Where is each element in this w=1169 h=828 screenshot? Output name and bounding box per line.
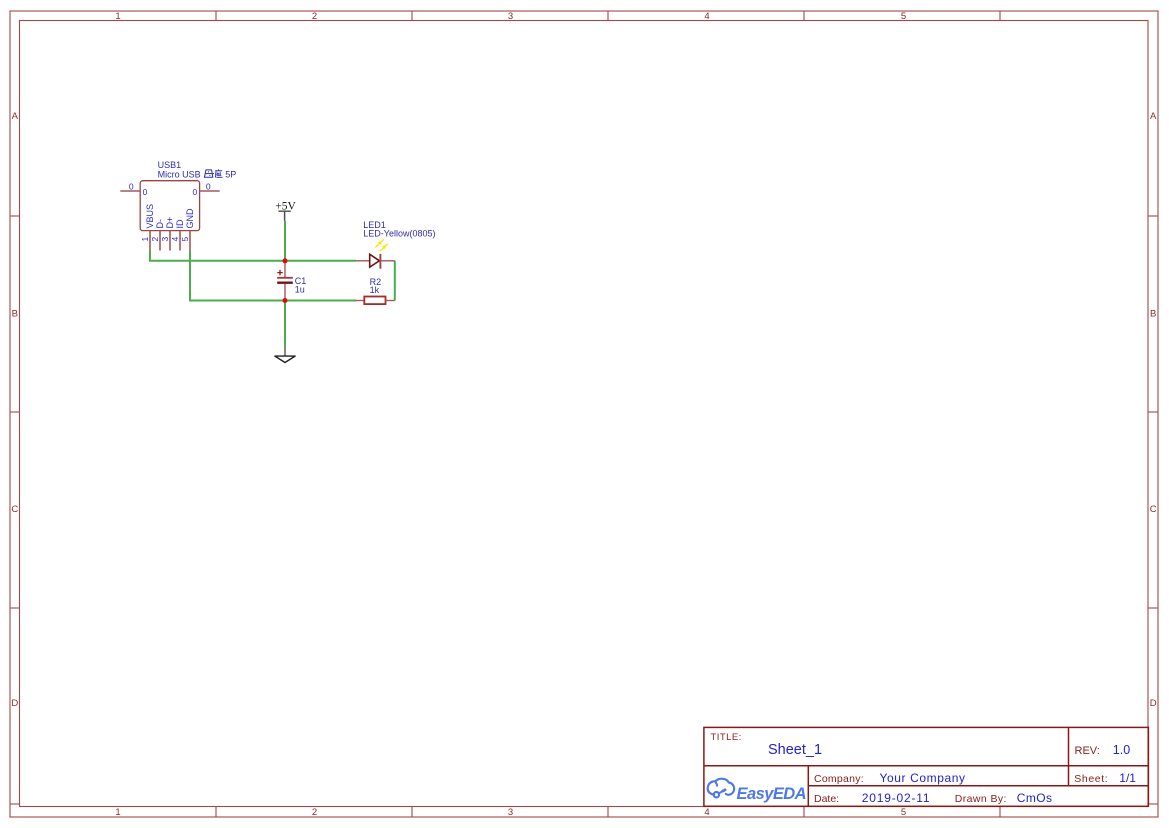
ground symbol: [275, 346, 295, 362]
svg-text:Sheet_1: Sheet_1: [768, 742, 822, 758]
svg-text:D: D: [1150, 698, 1157, 709]
svg-text:4: 4: [704, 11, 709, 22]
svg-text:B: B: [1150, 309, 1156, 320]
frame row ticks left: [10, 216, 20, 804]
power flag +5V: [275, 200, 296, 220]
svg-text:Company:: Company:: [814, 773, 864, 785]
connector USB1 body: [140, 181, 199, 231]
svg-text:1: 1: [140, 237, 150, 242]
svg-text:3: 3: [160, 237, 170, 242]
USB1 pin 4 lead: [179, 231, 181, 251]
svg-text:1: 1: [115, 807, 120, 818]
wire +5V symbol to top rail: [284, 221, 286, 261]
USB1 pin 2 lead: [159, 231, 161, 251]
svg-text:GND: GND: [185, 208, 195, 229]
resistor R2: [356, 297, 395, 305]
svg-text:3: 3: [508, 807, 513, 818]
svg-text:A: A: [1150, 111, 1157, 122]
svg-text:2: 2: [312, 807, 317, 818]
svg-text:2: 2: [312, 11, 317, 22]
svg-text:EasyEDA: EasyEDA: [737, 785, 807, 803]
svg-text:5P: 5P: [225, 169, 236, 179]
svg-text:Date:: Date:: [814, 793, 839, 805]
EasyEDA logo cloud icon: [708, 779, 734, 798]
svg-text:REV:: REV:: [1075, 745, 1100, 757]
svg-text:Sheet:: Sheet:: [1074, 773, 1108, 785]
USB1 pin 5 lead: [189, 231, 191, 251]
title block divider right of logo cell: [807, 766, 809, 807]
USB1 part name label "Micro USB 母座 5P": [158, 169, 237, 179]
frame column ticks top: [216, 11, 1000, 21]
svg-text:Drawn By:: Drawn By:: [955, 793, 1007, 805]
svg-text:1k: 1k: [370, 285, 380, 295]
svg-text:A: A: [12, 111, 19, 122]
frame row labels right: [1150, 111, 1157, 709]
node junction dot top rail: [283, 258, 288, 263]
LED1 light arrow 2: [380, 244, 388, 252]
title block divider right column: [1068, 727, 1070, 785]
USB1 pin 1 lead: [149, 231, 151, 251]
svg-text:LED-Yellow(0805): LED-Yellow(0805): [363, 229, 435, 239]
LED1 light arrow 1: [375, 239, 383, 247]
svg-text:1/1: 1/1: [1119, 771, 1136, 785]
USB1 pin 3 lead: [169, 231, 171, 251]
wire bottom rail to ground symbol: [284, 301, 286, 347]
svg-text:5: 5: [901, 11, 906, 22]
svg-text:ID: ID: [175, 219, 185, 229]
svg-text:0: 0: [143, 187, 148, 197]
svg-text:4: 4: [704, 807, 709, 818]
frame row ticks right: [1148, 216, 1158, 804]
title block divider under company/sheet row: [808, 785, 1148, 787]
frame column labels top: [115, 11, 906, 22]
svg-text:4: 4: [170, 237, 180, 242]
frame column ticks bottom: [216, 807, 1000, 818]
frame row labels left: [11, 111, 18, 709]
LED LED1: [356, 254, 395, 269]
capacitor C1: [277, 261, 293, 301]
svg-text:D: D: [11, 698, 18, 709]
svg-text:C: C: [11, 504, 18, 515]
svg-text:2: 2: [150, 237, 160, 242]
svg-text:0: 0: [206, 181, 211, 191]
node junction dot bottom rail: [283, 298, 288, 303]
svg-text:2019-02-11: 2019-02-11: [862, 791, 931, 805]
svg-text:5: 5: [901, 807, 906, 818]
svg-text:1u: 1u: [295, 284, 305, 294]
wire from USB1 pin 5 to GND net (bottom rail): [190, 251, 356, 301]
svg-text:0: 0: [192, 187, 197, 197]
frame column labels bottom: [115, 807, 906, 818]
svg-text:D+: D+: [165, 217, 175, 229]
svg-text:CmOs: CmOs: [1017, 791, 1053, 805]
svg-text:Your Company: Your Company: [880, 771, 966, 785]
svg-text:TITLE:: TITLE:: [711, 732, 742, 743]
title block outline: [704, 727, 1149, 806]
svg-text:1: 1: [115, 11, 120, 22]
USB1 shield pin 0 right stub: [200, 190, 220, 192]
svg-text:0: 0: [129, 181, 134, 191]
svg-text:5: 5: [180, 237, 190, 242]
svg-text:Micro USB: Micro USB: [158, 169, 201, 179]
svg-text:1.0: 1.0: [1113, 743, 1130, 757]
svg-text:B: B: [12, 309, 18, 320]
svg-text:VBUS: VBUS: [145, 204, 155, 229]
USB1 shield pin 0 left stub: [120, 190, 140, 192]
svg-text:C: C: [1150, 504, 1157, 515]
wire from USB1 pin 1 to +5V net (top rail): [150, 251, 356, 261]
svg-text:D-: D-: [155, 219, 165, 229]
svg-text:3: 3: [508, 11, 513, 22]
wire LED1 cathode to R2 (right vertical): [394, 261, 396, 301]
title block divider under title row: [704, 765, 1149, 767]
